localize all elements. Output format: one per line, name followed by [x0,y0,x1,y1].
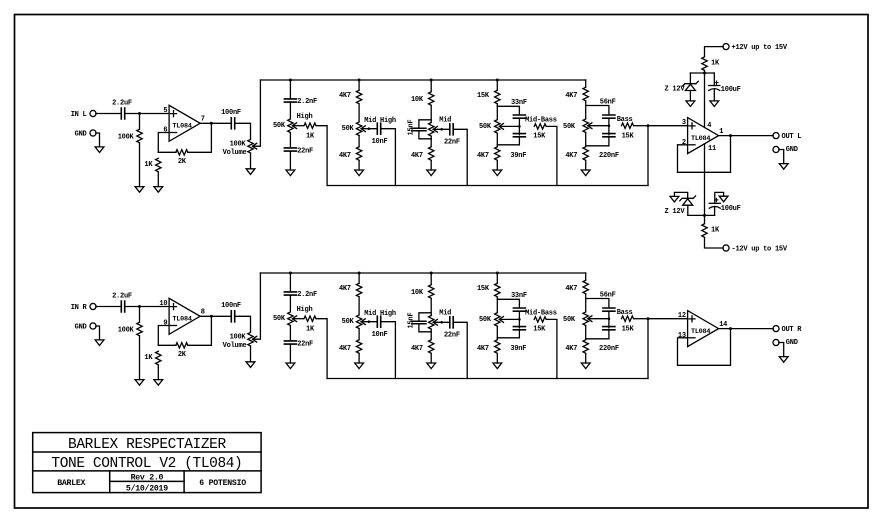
wire Mid mid (R) [430,299,432,316]
resistor 2K feedback (L) [176,150,188,155]
svg-text:1: 1 [719,128,723,136]
svg-text:IN L: IN L [71,111,87,119]
resistor 10K Mid top (R) [429,285,434,299]
svg-text:50K: 50K [563,316,576,324]
svg-text:4K7: 4K7 [339,92,351,100]
svg-text:22nF: 22nF [297,147,313,155]
svg-text:50K: 50K [273,315,286,323]
resistor 4K7 MidBass bottom (L) [495,147,500,161]
svg-text:10nF: 10nF [372,331,388,339]
capacitor 22nF High (L) [284,148,296,151]
svg-text:IN R: IN R [71,304,88,312]
resistor 4K7 Mid bottom (L) [429,147,434,161]
svg-text:2K: 2K [178,351,187,359]
resistor 4K7 MidHigh top (R) [356,283,361,297]
wiper volume (L) [253,143,257,149]
svg-text:TONE CONTROL V2 (TL084): TONE CONTROL V2 (TL084) [51,456,242,472]
wire Bass to sum node (L) [634,125,648,127]
svg-text:4: 4 [707,122,711,130]
svg-text:15K: 15K [622,132,635,140]
ground 100K (L) [135,187,144,193]
svg-text:Z 12V: Z 12V [665,208,686,216]
resistor 15K Bass out (R) [622,316,634,321]
wiper Bass (L) [588,123,592,129]
resistor 4K7 Bass bottom (R) [583,340,588,354]
wire pos zener top [689,73,691,84]
op-amp U1 (L) plus sign [171,111,177,117]
resistor 1K High (L) [304,123,316,128]
wire op2 inv (R) [678,329,731,366]
svg-text:50K: 50K [479,316,492,324]
svg-text:Mid-Bass: Mid-Bass [525,310,557,318]
wire Bass branch bottom (L) [586,137,609,146]
wire summing bus (L) [327,185,648,187]
wire Bass wiper (R) [588,318,609,320]
wire gnd out (R) [779,343,784,357]
svg-text:6 POTENSIO: 6 POTENSIO [199,479,246,488]
wire MidBass node (R) [496,297,498,312]
wire High gnd (R) [289,344,291,363]
capacitor 56nF Bass (R) [603,308,615,311]
wire op-amp1 out (R) [200,315,230,317]
capacitor 10nF MidHigh (R) [377,316,380,327]
resistor 10K Mid top (L) [429,92,434,106]
ground MidHigh (L) [355,170,364,176]
wire MidHigh top (R) [358,273,360,283]
op-amp U1 (L) minus sign [171,132,177,134]
wire cap to op-amp (R) [125,306,169,308]
wiper MidBass (R) [499,317,503,323]
capacitor 10nF MidHigh (L) [377,123,380,134]
node rail band MidHigh (L) [358,79,361,82]
ground 1K (R) [154,380,163,386]
wiper Mid (R) [433,319,437,325]
capacitor 2.2uF input (L) [121,108,124,119]
node rail band High (L) [289,79,292,82]
wire Bass wiper (L) [588,125,609,127]
svg-text:4K7: 4K7 [565,152,577,160]
op-amp U1 (R) plus sign [171,304,177,310]
ground MidBass (R) [493,363,502,369]
svg-text:100nF: 100nF [221,109,241,117]
svg-text:GND: GND [75,130,87,138]
wire Bass lower (L) [585,133,587,147]
resistor 1K positive rail [702,57,707,71]
svg-text:100K: 100K [118,326,135,334]
terminal GND input (R) [90,323,96,329]
node MidHigh wiper (L) [368,127,371,130]
resistor 4K7 MidHigh bottom (R) [356,340,361,354]
ground input terminal (L) [95,147,104,153]
svg-text:1K: 1K [711,226,720,234]
svg-text:4K7: 4K7 [339,152,351,160]
wire sum to op-amp2 (R) [647,319,649,379]
resistor 4K7 MidHigh top (L) [356,90,361,104]
wire op-amp1 out (L) [200,122,230,124]
svg-text:High: High [297,113,313,121]
svg-text:4K7: 4K7 [411,345,423,353]
op-amp U2 (R) plus sign [689,316,695,322]
ground neg ecap [719,196,728,202]
wire MidBass gnd (L) [496,161,498,171]
wire feedback right (L) [188,123,212,152]
svg-text:56nF: 56nF [600,99,616,107]
wire Bass branch mid (R) [608,311,610,328]
wire High to bus (L) [316,126,327,186]
node Mid wiper (R) [440,321,443,324]
ground 1K (L) [154,187,163,193]
wire 100K bottom (L) [139,143,141,187]
svg-text:8: 8 [201,309,205,317]
wire High gnd (L) [289,151,291,170]
svg-text:100nF: 100nF [221,302,241,310]
svg-text:15K: 15K [533,133,546,141]
wire High wiper (R) [293,318,304,320]
wire Bass top (R) [585,273,587,280]
svg-text:Bass: Bass [617,309,633,317]
wiper High (L) [292,123,296,129]
wire volume wiper to rail (R) [253,273,261,339]
wire 15nF branch top (L) [419,120,431,128]
wire MidBass branch top (L) [497,106,519,115]
potentiometer 50K Bass (R) [583,312,588,326]
op-amp U1 (L) [169,105,200,141]
wiper Bass (R) [588,316,592,322]
node MidBass wiper (R) [518,318,521,321]
potentiometer 50K Bass (L) [583,119,588,133]
potentiometer 50K MidBass (R) [495,313,500,327]
svg-text:15K: 15K [477,285,490,293]
svg-text:100K: 100K [230,334,247,342]
title block outer frame [33,433,261,493]
wire MidBass branch mid1 (L) [518,118,520,135]
wire Bass branch bottom (R) [586,330,609,339]
wire gnd terminal (L) [96,133,100,147]
wire MidBass wiper (R) [500,318,520,320]
svg-text:4K7: 4K7 [477,152,489,160]
wire tone rail (R) [260,272,585,274]
wire neg ecap bottom [714,207,716,216]
svg-text:39nF: 39nF [510,345,526,353]
terminal GND input (L) [90,130,96,136]
svg-text:2.2nF: 2.2nF [297,98,317,106]
svg-text:4K7: 4K7 [339,345,351,353]
node negative rail [703,214,706,217]
potentiometer 50K MidHigh (R) [356,315,361,329]
wire MidBass branch mid1 (R) [518,311,520,328]
svg-text:Mid-Bass: Mid-Bass [525,117,557,125]
capacitor 22nF Mid (L) [450,124,453,135]
ground neg zener [670,196,679,202]
node rail band MidBass (L) [496,79,499,82]
capacitor 220nF Bass (R) [603,327,615,330]
capacitor 39nF MidBass (L) [513,134,525,137]
node input junction (R) [138,305,141,308]
resistor 1K negative rail [702,224,707,238]
potentiometer 50K High (R) [288,312,293,326]
wire High mid (L) [289,102,291,119]
wire op2 out (L) [719,135,774,137]
node MidBass wiper (L) [518,125,521,128]
node Bass wiper (R) [608,317,611,320]
title block divider col1 [109,471,111,493]
wire feedback left (R) [158,344,176,346]
svg-text:22nF: 22nF [444,139,460,147]
terminal GND out (R) [773,339,779,345]
node rail band MidHigh (R) [358,272,361,275]
capacitor 39nF MidBass (R) [513,327,525,330]
capacitor 15nF Mid bypass (L) [412,128,426,131]
zener diode Z 12V negative [680,196,696,205]
svg-text:4K7: 4K7 [411,152,423,160]
svg-text:10: 10 [159,300,167,308]
wire Bass node (R) [585,294,587,312]
svg-text:2.2nF: 2.2nF [297,291,317,299]
svg-text:4K7: 4K7 [477,345,489,353]
wire High lower (L) [289,133,291,148]
svg-text:-12V up to 15V: -12V up to 15V [732,245,788,253]
wiper Mid (L) [433,126,437,132]
svg-text:50K: 50K [563,123,576,131]
wire volume bottom (R) [250,346,252,362]
wire Mid wiper (R) [433,321,449,323]
wire neg node [688,214,715,216]
wire 15nF branch top (R) [419,313,431,321]
wire MidBass lower (R) [496,326,498,339]
svg-text:BARLEX RESPECTAIZER: BARLEX RESPECTAIZER [68,437,226,453]
wire MidBass wiper (L) [500,125,520,127]
ground High (L) [286,170,295,176]
ground High (R) [286,363,295,369]
wire Mid to bus (R) [453,322,467,378]
svg-text:15nF: 15nF [407,120,415,136]
ground out (R) [779,357,788,363]
op-amp U2 (L) minus sign [689,144,695,146]
wire MidHigh to bus (L) [381,129,396,186]
wire Bass branch top (R) [586,299,609,308]
wire cap to op-amp (L) [125,113,169,115]
wire Bass node (L) [585,101,587,119]
wire Bass branch mid (L) [608,118,610,135]
wire MidBass gnd (R) [496,354,498,364]
potentiometer 100K Volume (L) [248,139,253,153]
wiper MidHigh (L) [361,126,365,132]
wire Mid to bus (L) [453,129,467,185]
resistor 15K MidBass out (R) [534,317,546,322]
wire MidBass to bus (R) [547,319,557,378]
wire MidHigh lower (L) [358,136,360,147]
wire MidBass top (R) [496,273,498,283]
wire -12V [705,238,724,249]
wire 1K pos to node [704,71,706,73]
wire High top (R) [289,273,291,292]
svg-text:BARLEX: BARLEX [57,479,85,488]
resistor 15K MidBass top (R) [495,283,500,297]
wire pos ecap bottom [713,89,715,101]
wire sum to noninv (L) [648,125,688,127]
wire Bass to sum node (R) [634,318,648,320]
svg-text:50K: 50K [342,125,355,133]
svg-text:10K: 10K [411,96,424,104]
wire feedback right (R) [188,316,212,345]
wire Bass gnd (R) [585,354,587,364]
wire to volume (L) [235,123,251,139]
op-amp U2 (L) plus sign [689,123,695,129]
svg-text:15K: 15K [622,325,635,333]
wire sum to op-amp2 (L) [647,126,649,186]
wire Mid lower (L) [430,136,432,146]
resistor 15K MidBass top (L) [495,90,500,104]
wire V+ to pin4 [704,73,706,127]
wire inv input (L) [158,133,169,153]
potentiometer 50K Mid (R) [429,316,434,330]
svg-text:4K7: 4K7 [565,345,577,353]
ground 100K (R) [135,380,144,386]
resistor 4K7 Mid bottom (R) [429,340,434,354]
svg-text:1K: 1K [144,354,153,362]
wire MidHigh top (L) [358,80,360,90]
wire 15nF branch bottom (R) [419,324,431,332]
op-amp U2 (L) [688,118,719,154]
svg-text:33nF: 33nF [511,292,527,300]
node rail band Mid (R) [430,272,433,275]
svg-text:11: 11 [708,145,716,153]
wire neg zener bottom [687,205,689,215]
wire MidHigh gnd (L) [358,161,360,171]
resistor 4K7 Bass bottom (L) [583,147,588,161]
svg-text:Volume: Volume [223,149,247,157]
svg-text:7: 7 [201,116,205,124]
capacitor 100nF (L) [231,118,234,129]
capacitor 22nF Mid (R) [450,317,453,328]
svg-text:High: High [297,306,313,314]
wire MidBass branch bottom (L) [497,137,519,145]
title block divider row2 [33,470,261,472]
node rail band High (R) [289,272,292,275]
wire pos zener bottom [689,91,691,101]
node Bass wiper (L) [608,124,611,127]
wire Bass lower (R) [585,326,587,340]
svg-text:10nF: 10nF [372,138,388,146]
svg-text:TL084: TL084 [173,316,192,324]
capacitor 2.2uF input (R) [121,301,124,312]
svg-text:100uF: 100uF [721,205,741,213]
svg-text:GND: GND [786,339,798,347]
svg-text:4K7: 4K7 [339,285,351,293]
node positive rail [703,72,706,75]
wire MidHigh mid (R) [358,297,360,315]
wire sum to noninv (R) [648,318,688,320]
ground volume (R) [246,362,255,368]
svg-text:2: 2 [682,139,686,147]
capacitor 100uF negative [709,198,720,208]
node rail band Mid (L) [430,79,433,82]
node summing (R) [647,317,650,320]
wire volume bottom (L) [250,153,252,169]
capacitor 15nF Mid bypass (R) [412,321,426,324]
node rail band MidBass (R) [496,272,499,275]
wire High top (L) [289,80,291,99]
wire neg ecap to gnd elbow [715,192,724,203]
svg-text:GND: GND [786,146,798,154]
resistor 4K7 MidHigh bottom (L) [356,147,361,161]
wire MidHigh to bus (R) [381,322,396,379]
svg-text:5: 5 [163,107,167,115]
wire Mid top (L) [430,80,432,92]
wire 100K bottom (R) [139,336,141,380]
wire MidHigh mid (L) [358,104,360,122]
node summing (L) [647,124,650,127]
terminal +12V [723,44,729,50]
capacitor 56nF Bass (L) [603,115,615,118]
ground MidHigh (R) [355,363,364,369]
node op2 out (L) [729,134,732,137]
svg-text:4K7: 4K7 [565,285,577,293]
zener diode Z 12V positive [683,81,699,90]
capacitor 2.2nF High (L) [284,99,296,102]
wire gnd out (L) [779,150,784,164]
svg-text:6: 6 [163,127,167,135]
op-amp U1 (R) minus sign [171,325,177,327]
wire MidHigh lower (R) [358,329,360,340]
wire High to bus (R) [316,319,327,379]
wire High lower (R) [289,326,291,341]
op-amp U1 (R) [169,298,200,334]
svg-text:14: 14 [719,321,727,329]
wire input (L) [96,113,120,115]
node op2 out (R) [729,327,732,330]
svg-text:TL084: TL084 [691,328,710,336]
wire input (R) [96,306,120,308]
wire Mid gnd (R) [430,354,432,364]
wire volume wiper to rail (L) [253,80,261,146]
svg-text:1K: 1K [144,161,153,169]
title block divider col2 [183,471,185,493]
svg-text:3: 3 [682,119,686,127]
svg-text:10K: 10K [411,289,424,297]
wire 15nF branch bottom (L) [419,131,431,139]
svg-text:56nF: 56nF [600,292,616,300]
wire Mid mid (L) [430,106,432,123]
svg-text:2K: 2K [178,158,187,166]
potentiometer 50K High (L) [288,119,293,133]
svg-text:22nF: 22nF [444,332,460,340]
wire pos node [690,72,714,74]
ground volume (L) [246,169,255,175]
ground Bass (R) [581,363,590,369]
ground input terminal (R) [95,340,104,346]
svg-text:1K: 1K [306,132,315,140]
resistor 15K Bass out (L) [622,123,634,128]
wire Mid lower (R) [430,329,432,339]
wire op2 inv (L) [678,136,731,173]
wire Mid wiper (L) [433,128,449,130]
svg-text:12: 12 [678,312,686,320]
wire feedback left (L) [158,151,176,153]
wire MidBass branch top (R) [497,299,519,308]
wire MidBass top (L) [496,80,498,90]
svg-text:OUT L: OUT L [782,133,802,141]
svg-text:+12V up to 15V: +12V up to 15V [732,44,788,52]
svg-text:50K: 50K [479,123,492,131]
wiper volume (R) [253,336,257,342]
svg-text:Volume: Volume [223,342,247,350]
wire Bass top (L) [585,80,587,87]
ground Mid (L) [427,170,436,176]
resistor 100K input (L) [137,129,142,143]
resistor 2K feedback (R) [176,343,188,348]
wire MidBass lower (L) [496,133,498,146]
